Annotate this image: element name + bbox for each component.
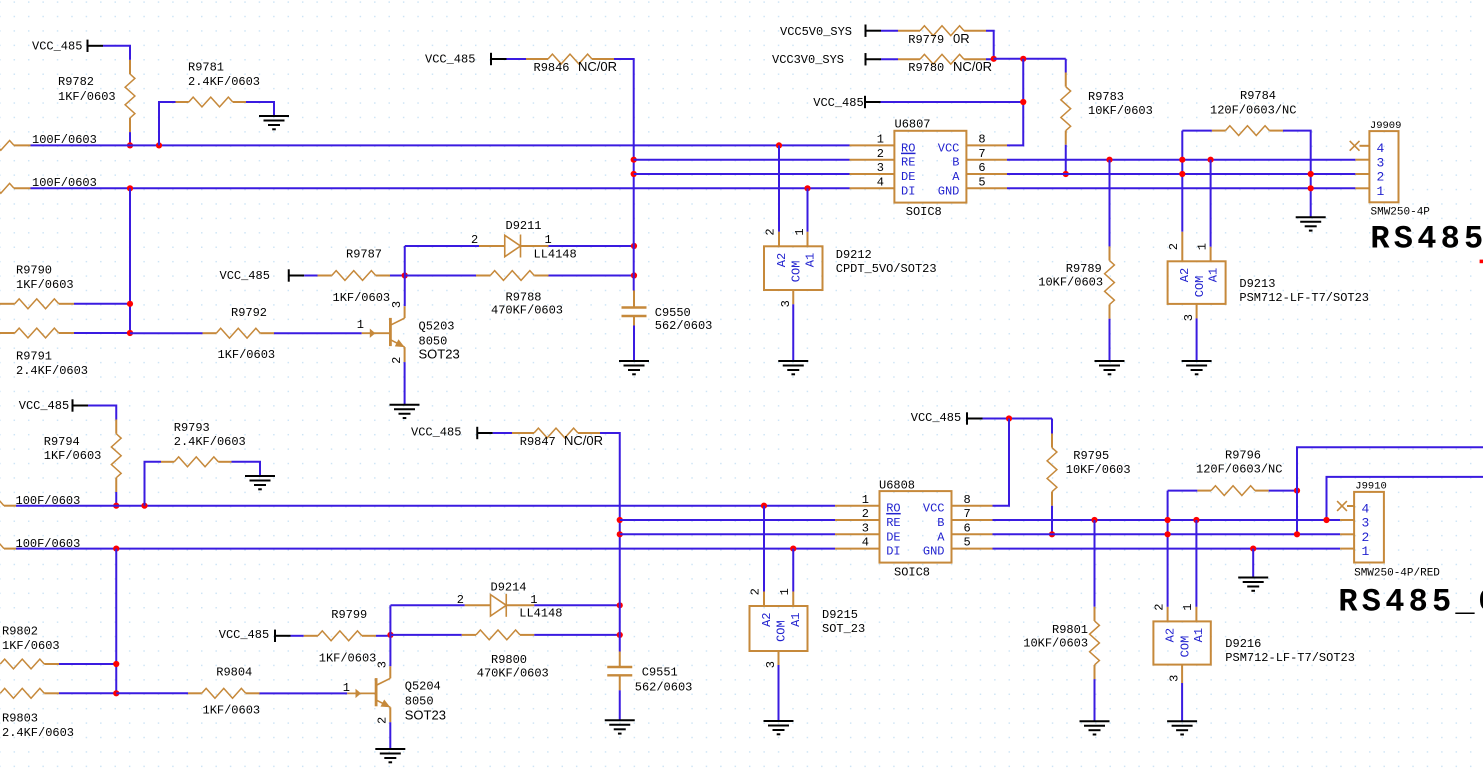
wire node to D9211 anode — [405, 245, 479, 247]
svg-text:3: 3 — [1362, 516, 1370, 531]
wire R9783 to A row — [1065, 145, 1067, 174]
junction — [127, 185, 133, 191]
svg-text:DE: DE — [901, 170, 915, 184]
wire VCC_485 to R9847 — [493, 432, 512, 434]
wire R9804 to Q5204 base — [260, 692, 348, 694]
svg-text:7: 7 — [964, 507, 971, 521]
svg-text:4: 4 — [862, 536, 869, 550]
power flag VCC3V0_SYS — [772, 53, 881, 67]
ground — [245, 476, 275, 489]
wire VCC_485 to R9799 — [291, 635, 304, 637]
svg-text:10KF/0603: 10KF/0603 — [1066, 463, 1131, 477]
svg-text:2: 2 — [862, 507, 869, 521]
svg-text:0R: 0R — [953, 31, 970, 46]
no-connect X on J9910 pin4 — [1337, 501, 1347, 511]
svg-text:VCC3V0_SYS: VCC3V0_SYS — [772, 53, 844, 67]
wire node to D9214 anode — [391, 604, 465, 606]
wire bus B 100F/0603 — [31, 187, 850, 189]
svg-text:VCC5V0_SYS: VCC5V0_SYS — [780, 25, 852, 39]
wire VCC3V0_SYS to R9780 — [881, 58, 898, 60]
wire B row down to R9789 — [1109, 160, 1111, 247]
junction — [127, 330, 133, 336]
svg-text:DE: DE — [886, 530, 900, 544]
junction — [387, 632, 393, 638]
svg-text:RS485: RS485 — [1370, 221, 1483, 258]
svg-text:VCC: VCC — [938, 141, 960, 155]
svg-text:2: 2 — [1377, 170, 1385, 185]
diode D9215 SOT_23 (TVS) — [749, 588, 866, 668]
junction — [631, 243, 637, 249]
resistor R9796 120F/0603/NC — [1196, 449, 1282, 496]
svg-text:J9909: J9909 — [1370, 120, 1402, 132]
svg-text:3: 3 — [375, 661, 389, 668]
wire bus B2 100F/0603 — [16, 548, 835, 550]
wire VCC_485 to VCC rail — [881, 101, 1024, 103]
resistor R9795 10KF/0603 — [1047, 419, 1130, 506]
svg-text:6: 6 — [964, 521, 971, 535]
svg-text:RE: RE — [901, 156, 915, 170]
resistor R9783 10KF/0603 — [1061, 59, 1153, 145]
svg-text:3: 3 — [862, 521, 869, 535]
svg-text:GND: GND — [938, 184, 960, 198]
svg-text:100F/0603: 100F/0603 — [16, 494, 81, 508]
junction — [1294, 531, 1300, 537]
net name RS485_C — [1338, 584, 1483, 621]
svg-text:NC/0R: NC/0R — [953, 59, 992, 74]
wire R9784 right down to ground — [1283, 131, 1311, 218]
svg-text:2: 2 — [877, 147, 884, 161]
svg-text:A1: A1 — [1206, 268, 1220, 282]
svg-text:2.4KF/0603: 2.4KF/0603 — [188, 75, 260, 89]
svg-text:A1: A1 — [1192, 628, 1206, 642]
lead (edge) feeding bus A2 — [0, 494, 80, 511]
resistor R9803 — [0, 688, 74, 740]
junction — [1020, 99, 1026, 105]
resistor R9791 — [0, 328, 88, 378]
resistor R9846 NC/0R — [526, 54, 617, 75]
svg-text:8: 8 — [978, 133, 985, 147]
wire R9801 to ground — [1094, 679, 1096, 721]
junction — [156, 142, 162, 148]
svg-text:VCC_485: VCC_485 — [220, 269, 270, 283]
svg-text:CPDT_5VO/SOT23: CPDT_5VO/SOT23 — [836, 262, 937, 276]
svg-text:D9215: D9215 — [822, 608, 858, 622]
resistor R9781 — [176, 61, 261, 107]
junction — [402, 272, 408, 278]
svg-text:100F/0603: 100F/0603 — [16, 537, 81, 551]
svg-text:D9212: D9212 — [836, 248, 872, 262]
svg-text:U6807: U6807 — [895, 118, 931, 132]
svg-text:1KF/0603: 1KF/0603 — [2, 639, 60, 653]
svg-text:PSM712-LF-T7/SOT23: PSM712-LF-T7/SOT23 — [1239, 291, 1369, 305]
wire RE row to U6807 — [634, 159, 850, 161]
net name RS485 — [1370, 221, 1483, 258]
resistor R9788 — [476, 271, 563, 318]
svg-text:10KF/0603: 10KF/0603 — [1088, 104, 1153, 118]
ground — [1167, 721, 1197, 734]
svg-text:1KF/0603: 1KF/0603 — [58, 90, 116, 104]
svg-text:R9784: R9784 — [1240, 89, 1276, 103]
resistor R9780 NC/0R — [898, 54, 992, 75]
junction — [991, 56, 997, 62]
svg-text:VCC_485: VCC_485 — [813, 96, 863, 110]
svg-text:D9213: D9213 — [1239, 277, 1275, 291]
wire bus A2 down to D9215 pin2 — [763, 506, 765, 592]
svg-text:1KF/0603: 1KF/0603 — [203, 703, 261, 717]
wire GND row (pin5) to J9909 pin1 — [1007, 187, 1355, 189]
svg-text:2.4KF/0603: 2.4KF/0603 — [2, 726, 74, 740]
wire R9794 to bus A2 — [115, 492, 117, 506]
wire B row down to R9801 — [1094, 520, 1096, 607]
resistor R9792 — [203, 306, 276, 362]
junction — [1250, 546, 1256, 552]
svg-text:1KF/0603: 1KF/0603 — [333, 291, 391, 305]
ground — [390, 405, 420, 418]
svg-text:2: 2 — [1152, 603, 1166, 610]
wire node to R9800 — [391, 634, 462, 636]
wire VCC5V0_SYS to R9779 — [881, 30, 898, 32]
wire VCC_485 to R9787 — [304, 275, 317, 277]
junction — [1049, 531, 1055, 537]
svg-text:2: 2 — [390, 357, 404, 364]
connector J9909 SMW250-4P — [1355, 120, 1430, 219]
svg-text:R9779: R9779 — [908, 33, 944, 47]
ground — [375, 749, 405, 762]
junction — [1020, 56, 1026, 62]
svg-text:R9788: R9788 — [506, 291, 542, 305]
svg-text:1: 1 — [778, 588, 792, 595]
wire stub exiting right edge (cut) — [1480, 260, 1483, 264]
junction — [1006, 415, 1012, 421]
junction — [1294, 488, 1300, 494]
junction — [127, 142, 133, 148]
wire D9213 pin3 to ground — [1196, 318, 1198, 361]
svg-text:A2: A2 — [775, 253, 789, 267]
op-amp U6807 (RS485 transceiver, SOIC8) — [850, 118, 1008, 220]
svg-text:1: 1 — [545, 233, 552, 247]
svg-text:J9910: J9910 — [1355, 481, 1387, 493]
wire A row (pin6) to J9909 pin2 — [1007, 173, 1355, 175]
svg-text:LL4148: LL4148 — [534, 248, 577, 262]
power flag VCC_485 (at R9847) — [411, 426, 493, 440]
svg-text:VCC: VCC — [923, 502, 945, 516]
wire VCC_485 to R9782 — [103, 46, 130, 60]
svg-text:1: 1 — [862, 493, 869, 507]
wire bus B2 down to D9215 pin1 — [792, 549, 794, 592]
wire A row (pin6) to J9910 pin2 — [993, 533, 1341, 535]
resistor (edge, partial) feeding bus A — [0, 133, 97, 150]
resistor R9787 — [318, 248, 391, 306]
svg-text:5: 5 — [978, 175, 985, 189]
wire R9782 to bus A — [129, 132, 131, 145]
svg-text:1KF/0603: 1KF/0603 — [44, 449, 102, 463]
svg-text:D9216: D9216 — [1225, 637, 1261, 651]
svg-text:4: 4 — [1377, 141, 1385, 156]
svg-text:R9796: R9796 — [1225, 449, 1261, 463]
junction — [790, 546, 796, 552]
wire VCC rail down to U6807 pin8 — [1007, 59, 1023, 146]
junction — [1165, 531, 1171, 537]
resistor R9779 0R — [898, 26, 986, 47]
power flag VCC_485 (U6808) — [911, 411, 983, 425]
svg-text:R9793: R9793 — [174, 421, 210, 435]
wire junction to R9804 — [116, 692, 188, 694]
svg-text:COM: COM — [1178, 636, 1192, 658]
wire Q5203 emitter to ground — [404, 362, 406, 405]
svg-text:R9780: R9780 — [908, 61, 944, 75]
junction — [617, 602, 623, 608]
svg-text:VCC_485: VCC_485 — [219, 628, 269, 642]
junction — [1308, 185, 1314, 191]
resistor R9801 10KF/0603 — [1023, 607, 1099, 679]
ground — [605, 720, 635, 733]
svg-text:LL4148: LL4148 — [519, 607, 562, 621]
junction — [1165, 517, 1171, 523]
svg-text:A: A — [952, 170, 960, 184]
svg-text:1: 1 — [877, 133, 884, 147]
diode D9214 LL4148 — [457, 580, 563, 620]
svg-text:DI: DI — [901, 184, 915, 198]
svg-text:D9211: D9211 — [506, 219, 542, 233]
wire R9788 to node — [549, 275, 635, 277]
svg-text:R9847: R9847 — [520, 435, 556, 449]
svg-text:SOT23: SOT23 — [405, 708, 446, 723]
ground — [619, 361, 649, 374]
junction — [617, 632, 623, 638]
resistor (edge, partial) feeding bus B — [0, 176, 97, 193]
wire bus A up to R9781 — [159, 102, 176, 145]
svg-text:SOT23: SOT23 — [419, 347, 460, 362]
lead (edge) feeding bus B2 — [0, 537, 80, 554]
diode D9216 PSM712-LF-T7/SOT23 (TVS) — [1152, 603, 1355, 683]
power flag VCC_485 (U6807) — [813, 96, 880, 110]
svg-text:2: 2 — [1362, 530, 1370, 545]
resistor R9790 — [0, 264, 74, 309]
power flag VCC_485 (bottom left) — [19, 399, 88, 413]
ground — [764, 721, 794, 734]
svg-text:C9550: C9550 — [655, 306, 691, 320]
svg-text:DI: DI — [886, 545, 900, 559]
ground — [1296, 217, 1326, 230]
svg-text:VCC_485: VCC_485 — [911, 411, 961, 425]
wire B row down to D9213 pin1 — [1210, 160, 1212, 247]
junction — [1063, 171, 1069, 177]
junction — [1208, 157, 1214, 163]
junction — [1193, 517, 1199, 523]
wire R9800 to node — [534, 634, 620, 636]
wire node vertical (collector net) — [404, 246, 406, 306]
svg-text:R9801: R9801 — [1052, 623, 1088, 637]
svg-text:B: B — [937, 516, 944, 530]
svg-text:562/0603: 562/0603 — [655, 319, 713, 333]
svg-text:2: 2 — [749, 588, 763, 595]
resistor R9802 — [0, 625, 59, 669]
svg-text:5: 5 — [964, 536, 971, 550]
wire R9796 top left — [1168, 490, 1198, 492]
wire D9215 pin3 to ground — [778, 665, 780, 721]
svg-text:COM: COM — [789, 261, 803, 283]
wire R9795 to A row — [1051, 506, 1053, 535]
wire D9212 pin3 to ground — [792, 304, 794, 361]
wire bus A2 up to R9793 — [145, 462, 162, 506]
svg-text:1: 1 — [793, 228, 807, 235]
wire B row up and out to right edge — [1327, 477, 1483, 520]
power flag VCC_485 (at R9846) — [425, 53, 507, 67]
svg-text:C9551: C9551 — [642, 665, 678, 679]
svg-text:R9795: R9795 — [1073, 449, 1109, 463]
wire R9799 to node — [376, 635, 391, 637]
wire GND row to ground — [1252, 549, 1254, 578]
svg-text:SMW250-4P: SMW250-4P — [1371, 207, 1431, 219]
svg-text:VCC_485: VCC_485 — [411, 426, 461, 440]
resistor R9789 10KF/0603 — [1038, 246, 1114, 318]
svg-text:A2: A2 — [760, 612, 774, 626]
svg-text:100F/0603: 100F/0603 — [32, 176, 97, 190]
wire R9792 to Q5203 base — [274, 332, 362, 334]
svg-text:R9781: R9781 — [188, 61, 224, 75]
svg-text:R9794: R9794 — [44, 435, 80, 449]
svg-text:3: 3 — [1377, 155, 1385, 170]
svg-text:NC/0R: NC/0R — [564, 433, 603, 448]
junction — [1179, 157, 1185, 163]
svg-text:GND: GND — [923, 545, 945, 559]
svg-text:A2: A2 — [1163, 628, 1177, 642]
svg-text:10KF/0603: 10KF/0603 — [1038, 276, 1103, 290]
svg-text:100F/0603: 100F/0603 — [32, 133, 97, 147]
wire D9211 cathode to node — [549, 245, 635, 247]
ground — [1080, 721, 1110, 734]
svg-text:7: 7 — [978, 147, 985, 161]
svg-text:2: 2 — [471, 233, 478, 247]
svg-text:2.4KF/0603: 2.4KF/0603 — [16, 364, 88, 378]
diode D9211 LL4148 — [471, 219, 577, 262]
svg-text:A1: A1 — [803, 253, 817, 267]
svg-text:COM: COM — [1193, 276, 1207, 298]
svg-text:2: 2 — [1167, 243, 1181, 250]
wire R9789 to ground — [1109, 319, 1111, 361]
svg-text:3: 3 — [1182, 314, 1196, 321]
ground — [778, 361, 808, 374]
junction — [127, 301, 133, 307]
svg-text:A2: A2 — [1178, 268, 1192, 282]
svg-text:R9790: R9790 — [16, 264, 52, 278]
svg-text:Q5204: Q5204 — [405, 680, 441, 694]
junction — [113, 503, 119, 509]
junction — [617, 531, 623, 537]
resistor R9800 — [462, 630, 549, 681]
wire R9796 left vertical / D9216 pin2 net — [1167, 491, 1169, 607]
svg-text:120F/0603/NC: 120F/0603/NC — [1210, 104, 1296, 118]
wire node down to A row — [1296, 491, 1298, 535]
svg-text:R9791: R9791 — [16, 350, 52, 364]
svg-text:PSM712-LF-T7/SOT23: PSM712-LF-T7/SOT23 — [1225, 651, 1355, 665]
svg-text:1: 1 — [1362, 544, 1370, 559]
svg-text:470KF/0603: 470KF/0603 — [491, 304, 563, 318]
svg-text:RE: RE — [886, 516, 900, 530]
svg-text:VCC_485: VCC_485 — [425, 53, 475, 67]
svg-text:120F/0603/NC: 120F/0603/NC — [1196, 462, 1282, 476]
svg-text:RS485_C: RS485_C — [1338, 584, 1483, 621]
svg-text:562/0603: 562/0603 — [635, 680, 693, 694]
junction — [113, 661, 119, 667]
svg-text:R9802: R9802 — [2, 625, 38, 639]
resistor R9782 — [58, 60, 135, 132]
svg-text:2.4KF/0603: 2.4KF/0603 — [174, 435, 246, 449]
junction — [1106, 157, 1112, 163]
power flag VCC_485 (bottom mid left) — [219, 628, 291, 642]
resistor R9793 — [161, 421, 246, 467]
power flag VCC_485 (top left) — [32, 40, 103, 54]
svg-text:1KF/0603: 1KF/0603 — [16, 278, 74, 292]
svg-text:4: 4 — [877, 175, 884, 189]
junction — [776, 142, 782, 148]
transistor Q5203 8050 SOT23 — [357, 301, 460, 364]
resistor R9847 NC/0R — [512, 428, 603, 449]
wire R9803 to junction — [59, 692, 116, 694]
junction — [1091, 517, 1097, 523]
no-connect X on J9909 pin4 — [1350, 141, 1360, 151]
wire RE row to U6808 — [620, 519, 835, 521]
svg-text:COM: COM — [775, 620, 789, 642]
wire node vertical (collector net) — [389, 605, 391, 666]
resistor R9804 — [188, 665, 260, 717]
wire R9780 to node — [986, 58, 994, 60]
svg-text:R9803: R9803 — [2, 712, 38, 726]
diode D9213 PSM712-LF-T7/SOT23 (TVS) — [1167, 232, 1369, 321]
wire R9787 to node — [390, 275, 405, 277]
capacitor C9550 562/0603 — [622, 291, 713, 334]
svg-text:R9800: R9800 — [491, 653, 527, 667]
svg-text:A1: A1 — [789, 612, 803, 626]
svg-text:3: 3 — [764, 661, 778, 668]
wire left vertical from bus B2 — [115, 549, 117, 694]
wire R9847 to center vertical — [600, 433, 620, 652]
wire DE row to U6807 — [634, 173, 850, 175]
wire R9790 to junction — [74, 303, 130, 305]
svg-text:B: B — [952, 156, 959, 170]
resistor R9794 — [44, 420, 121, 493]
svg-text:6: 6 — [978, 161, 985, 175]
svg-text:R9804: R9804 — [216, 665, 252, 679]
junction — [1179, 171, 1185, 177]
junction — [631, 272, 637, 278]
svg-text:SOIC8: SOIC8 — [906, 205, 942, 219]
svg-text:NC/0R: NC/0R — [578, 59, 617, 74]
power flag VCC5V0_SYS — [780, 25, 881, 40]
svg-text:3: 3 — [1168, 675, 1182, 682]
wire R9846 to center vertical — [614, 59, 634, 291]
svg-text:R9789: R9789 — [1066, 262, 1102, 276]
ground — [1095, 361, 1125, 374]
wire R9781 to ground — [246, 102, 274, 116]
svg-text:R9783: R9783 — [1088, 90, 1124, 104]
wire bus B down to D9212 pin1 — [807, 188, 809, 232]
junction — [141, 503, 147, 509]
svg-text:A: A — [937, 530, 945, 544]
diode D9212 CPDT_5VO/SOT23 (TVS) — [764, 228, 937, 307]
junction — [631, 171, 637, 177]
wire B row (pin7) to J9909 pin3 — [1007, 159, 1355, 161]
svg-text:SOIC8: SOIC8 — [894, 566, 930, 580]
svg-text:2: 2 — [457, 593, 464, 607]
wire D9214 cathode to node — [534, 604, 620, 606]
svg-text:D9214: D9214 — [491, 580, 527, 594]
wire R9784 left vertical / D9213 pin2 net — [1181, 131, 1183, 232]
wire node to R9783 corner — [994, 58, 1066, 60]
svg-text:U6808: U6808 — [879, 479, 915, 493]
junction — [631, 157, 637, 163]
svg-text:1: 1 — [357, 318, 364, 332]
